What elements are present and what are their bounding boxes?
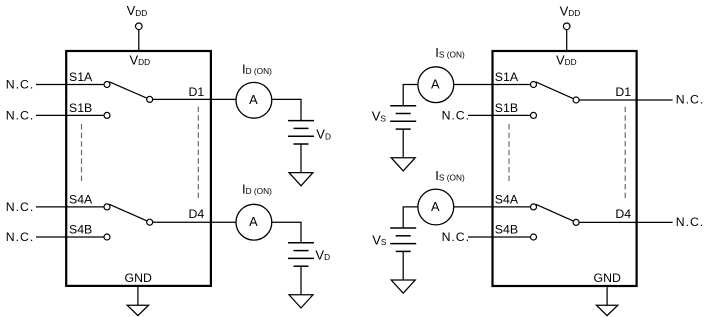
wire ammeter 1 to VD battery 1 bbox=[272, 99, 301, 120]
ground symbol (VD battery 1) bbox=[289, 173, 313, 186]
svg-text:N.C.: N.C. bbox=[6, 109, 34, 123]
battery VS channel 1 (right) bbox=[390, 106, 416, 129]
svg-text:N.C.: N.C. bbox=[6, 230, 34, 244]
svg-text:S1A: S1A bbox=[495, 70, 519, 84]
dashed continuation line (right box, D side) bbox=[624, 107, 626, 199]
svg-text:S1B: S1B bbox=[495, 101, 518, 115]
wire VDD terminal to right box bbox=[566, 30, 568, 50]
wire S1 pole to D1 ammeter bbox=[153, 98, 237, 100]
wire N.C. to S4B bbox=[36, 236, 104, 238]
wire GND pin to ground (left) bbox=[137, 287, 139, 305]
svg-text:GND: GND bbox=[594, 271, 621, 285]
switch S4 contact A circle (right) bbox=[531, 204, 537, 210]
battery VD channel 4 bbox=[288, 243, 314, 266]
wire ammeter 4 to VD battery 4 bbox=[272, 222, 301, 243]
svg-text:A: A bbox=[249, 92, 258, 107]
svg-text:N.C.: N.C. bbox=[442, 230, 470, 244]
dashed continuation line (left box, S side) bbox=[81, 124, 83, 181]
wire battery 1 to ground bbox=[300, 144, 302, 173]
switch S1 contact A circle bbox=[104, 82, 110, 88]
switch S1 pole circle bbox=[147, 96, 153, 102]
wire N.C. to S1B (right) bbox=[468, 114, 531, 116]
wire GND pin to ground (right) bbox=[606, 287, 608, 305]
switch S1 pole circle (right) bbox=[573, 97, 579, 103]
dashed continuation line (left box, D side) bbox=[197, 107, 199, 199]
svg-text:N.C.: N.C. bbox=[6, 78, 34, 92]
svg-text:A: A bbox=[431, 77, 440, 92]
svg-text:S1A: S1A bbox=[69, 70, 93, 84]
wire ammeter to S4A bbox=[454, 206, 531, 208]
wire S4 pole to D4 ammeter bbox=[153, 221, 237, 223]
svg-text:N.C.: N.C. bbox=[676, 215, 704, 229]
ground symbol (left box GND) bbox=[127, 305, 148, 315]
svg-text:D4: D4 bbox=[615, 207, 631, 221]
switch S1 blade (right) bbox=[536, 82, 574, 99]
ammeter A source channel 1 bbox=[418, 67, 454, 103]
VDD terminal circle (right) bbox=[563, 23, 570, 30]
wire ammeter 1 to VS battery 1 (right) bbox=[403, 85, 418, 106]
switch S4 pole circle bbox=[147, 219, 153, 225]
wire VS battery 1 to ground bbox=[402, 129, 404, 158]
svg-text:D4: D4 bbox=[189, 207, 205, 221]
wire N.C. to S1B bbox=[36, 114, 104, 116]
ground symbol (VD battery 4) bbox=[289, 295, 313, 308]
dashed continuation line (right box, S side) bbox=[508, 124, 510, 181]
svg-text:S4B: S4B bbox=[69, 223, 92, 237]
ground symbol (VS battery 4) bbox=[391, 280, 415, 293]
switch S4 contact B circle (right) bbox=[531, 234, 537, 240]
svg-text:N.C.: N.C. bbox=[676, 92, 704, 106]
svg-text:D1: D1 bbox=[615, 85, 631, 99]
svg-text:D1: D1 bbox=[189, 85, 205, 99]
svg-text:S4A: S4A bbox=[495, 192, 519, 206]
wire ammeter 4 to VS battery 4 (right) bbox=[403, 207, 418, 228]
wire battery 4 to ground bbox=[300, 266, 302, 295]
battery VS channel 4 (right) bbox=[390, 228, 416, 251]
ammeter A source channel 4 bbox=[418, 189, 454, 225]
svg-text:GND: GND bbox=[125, 271, 152, 285]
wire S4 pole to D4 N.C. bbox=[579, 221, 673, 223]
mux IC box (right) bbox=[493, 51, 637, 286]
switch S1 contact A circle (right) bbox=[531, 82, 537, 88]
wire N.C. to S1A bbox=[36, 84, 104, 86]
ammeter A channel 4 bbox=[236, 204, 272, 240]
switch S4 contact B circle bbox=[104, 234, 110, 240]
wire N.C. to S4A bbox=[36, 206, 104, 208]
mux IC box (left) bbox=[66, 51, 211, 286]
wire ammeter to S1A bbox=[454, 84, 531, 86]
switch S4 blade (right) bbox=[536, 204, 574, 221]
wire VS battery 4 to ground bbox=[402, 251, 404, 280]
wire VDD terminal to left box bbox=[138, 30, 140, 50]
svg-text:N.C.: N.C. bbox=[6, 200, 34, 214]
ground symbol (right box GND) bbox=[596, 305, 617, 315]
switch S1 contact B circle (right) bbox=[531, 112, 537, 118]
switch S4 contact A circle bbox=[104, 204, 110, 210]
ammeter A channel 1 bbox=[236, 82, 272, 118]
svg-text:N.C.: N.C. bbox=[442, 109, 470, 123]
switch S1 blade bbox=[109, 82, 147, 98]
switch S1 contact B circle bbox=[104, 112, 110, 118]
ground symbol (VS battery 1) bbox=[391, 158, 415, 171]
svg-text:S1B: S1B bbox=[69, 101, 92, 115]
switch S4 pole circle (right) bbox=[573, 219, 579, 225]
svg-text:A: A bbox=[249, 214, 258, 229]
svg-text:S4A: S4A bbox=[69, 192, 93, 206]
svg-text:S4B: S4B bbox=[495, 223, 518, 237]
switch S4 blade bbox=[109, 204, 147, 221]
battery VD channel 1 bbox=[288, 121, 314, 144]
VDD terminal circle (left) bbox=[136, 23, 143, 30]
svg-text:A: A bbox=[431, 199, 440, 214]
wire N.C. to S4B (right) bbox=[468, 236, 531, 238]
wire S1 pole to D1 N.C. bbox=[579, 99, 673, 101]
